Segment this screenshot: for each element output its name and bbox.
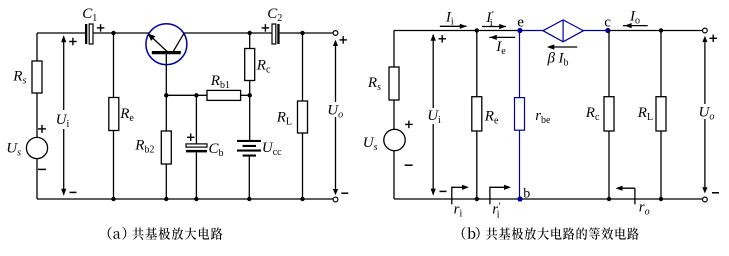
svg-text:b: b xyxy=(523,187,530,202)
svg-text:c: c xyxy=(604,14,611,30)
svg-text:e: e xyxy=(517,14,524,30)
